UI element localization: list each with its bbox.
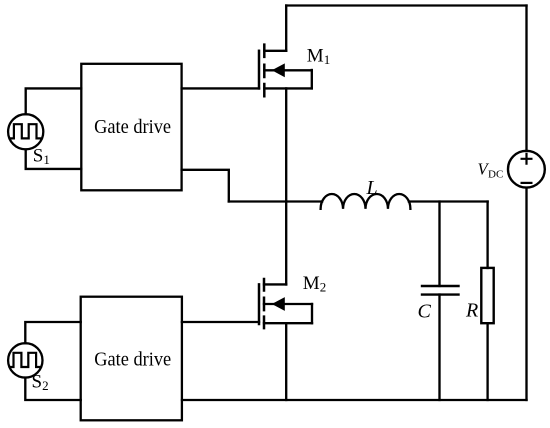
svg-text:Gate drive: Gate drive xyxy=(94,116,171,138)
svg-text:Gate drive: Gate drive xyxy=(94,349,171,371)
M1 gate plate xyxy=(258,51,261,89)
pulse source S2 circle xyxy=(8,343,42,377)
M1 drain lead xyxy=(285,6,287,51)
R bottom lead xyxy=(486,323,488,400)
M1 channel dashes xyxy=(263,45,266,97)
M2 gate plate xyxy=(258,284,261,324)
inductor L xyxy=(321,194,411,209)
gate drive box U2 xyxy=(81,297,182,421)
wire gate drive U1 to M1 gate xyxy=(182,87,259,89)
M2 drain lead xyxy=(285,202,287,285)
wire VDC top lead xyxy=(525,6,527,152)
wire inductor to R branch xyxy=(409,200,488,202)
C bottom lead xyxy=(438,295,440,400)
wire gate drive U1 bottom output to SW node xyxy=(182,170,229,202)
transistor M1 xyxy=(259,6,312,202)
M1 source tap xyxy=(264,87,312,89)
wire VDC bottom lead xyxy=(525,188,527,400)
wire gate drive U2 to M2 gate xyxy=(182,321,259,323)
VDC plus sign xyxy=(522,154,532,164)
M1 drain tap xyxy=(264,50,286,52)
wire S2 top lead xyxy=(25,322,80,343)
M1 source lead xyxy=(285,88,287,201)
svg-text:DC: DC xyxy=(488,168,503,180)
wire top rail xyxy=(286,4,526,6)
M2 channel dashes xyxy=(263,279,266,328)
gate drive box U1 xyxy=(81,64,181,191)
wire bottom rail xyxy=(182,399,527,401)
wire SW node horizontal to inductor xyxy=(229,200,322,202)
R top lead xyxy=(486,202,488,268)
M2 body-source link xyxy=(311,304,313,323)
svg-text:C: C xyxy=(418,301,432,323)
M2 source lead xyxy=(285,323,287,400)
wire S2 bottom lead xyxy=(25,378,80,400)
wire S1 top lead xyxy=(26,88,82,114)
M1 body tap with arrow xyxy=(264,69,312,71)
M2 drain tap xyxy=(264,283,286,285)
voltage source VDC circle xyxy=(508,151,545,188)
M2 source tap xyxy=(264,322,312,324)
C top lead xyxy=(438,202,440,287)
capacitor C xyxy=(422,202,459,401)
wire S1 bottom lead xyxy=(26,149,82,169)
M2 body tap with arrow xyxy=(264,303,312,305)
C plates xyxy=(422,286,459,295)
transistor M2 xyxy=(182,202,312,401)
pulse source S1 circle xyxy=(8,114,43,149)
VDC minus sign xyxy=(522,182,532,184)
S2 square-wave symbol xyxy=(10,353,39,367)
resistor R xyxy=(481,202,493,401)
S1 square-wave symbol xyxy=(11,124,40,138)
svg-text:R: R xyxy=(465,300,478,322)
svg-text:L: L xyxy=(366,177,378,199)
M1 body-source link xyxy=(311,70,313,88)
R body xyxy=(481,268,493,323)
